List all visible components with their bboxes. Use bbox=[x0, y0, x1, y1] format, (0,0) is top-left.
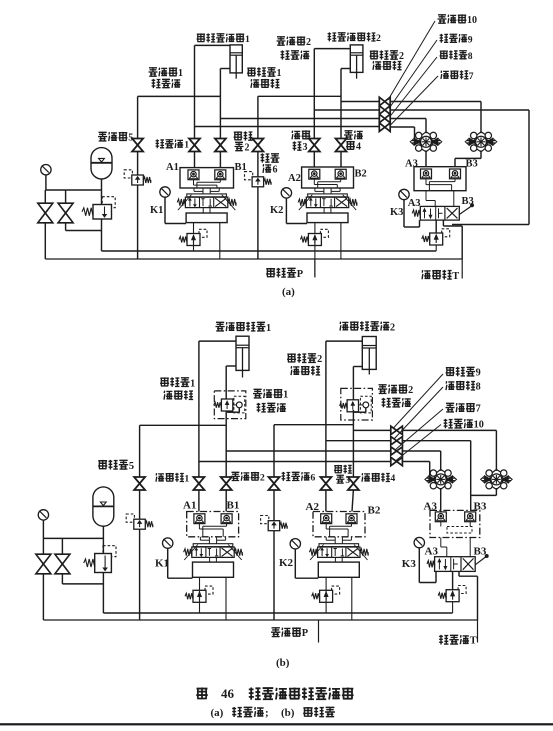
label cyl1 piston chamber left (b) bbox=[160, 377, 169, 386]
K3 spring valve (b) bbox=[458, 586, 466, 594]
wire K1 spring drain (b) bbox=[199, 590, 201, 613]
wire valve2 to check6 (b) bbox=[273, 490, 275, 521]
reducing valve box cyl1 (b) bbox=[214, 391, 246, 419]
drain line (b) bbox=[103, 612, 452, 614]
svg-text:K1: K1 bbox=[155, 558, 169, 570]
wire bypass cyl2 (b) bbox=[365, 408, 367, 412]
quick coupling 1 (b) bbox=[434, 469, 447, 489]
wire relief to drain (b) bbox=[102, 573, 104, 614]
label shutoff valve 9 (b) bbox=[446, 367, 455, 376]
wire bypass cyl1 (b) bbox=[238, 408, 240, 412]
wire to hand valves (a) bbox=[44, 190, 46, 203]
leader line valve8 (a) bbox=[390, 57, 438, 117]
svg-text:2: 2 bbox=[390, 323, 395, 334]
label shutoff valve 3 (b) bbox=[334, 465, 342, 473]
wire riser valve1 (b) bbox=[198, 341, 200, 477]
wire riser valve3 (b) bbox=[352, 367, 354, 400]
svg-text:B2: B2 bbox=[355, 169, 367, 180]
K3 lever (a) bbox=[459, 206, 471, 215]
label shutoff valve 4 (b) bbox=[362, 473, 370, 482]
wire riser valve2-cyl1-rod (a) bbox=[219, 69, 221, 139]
K2 directional valve group (b) bbox=[319, 544, 359, 547]
leader line valve8 (b) bbox=[394, 387, 443, 439]
svg-text:1: 1 bbox=[283, 390, 288, 401]
wire valve5 to check (a) bbox=[137, 152, 139, 176]
svg-text:A1: A1 bbox=[166, 162, 179, 173]
wire hand valve2 down (a) bbox=[65, 223, 67, 231]
label shutoff valve 5 (a) bbox=[98, 132, 107, 141]
wire coupling2 jog (b) bbox=[495, 488, 497, 495]
label cyl2 rod chamber (a) bbox=[370, 50, 379, 59]
manifold block K2 top (b) bbox=[313, 512, 365, 537]
wire hand valve1 to bus (b) bbox=[42, 574, 44, 620]
wire stack right to coupling1 (b) bbox=[402, 450, 441, 452]
svg-text:7: 7 bbox=[476, 404, 481, 415]
relief valve (a) bbox=[102, 197, 115, 208]
label cyl1 rod chamber (a) bbox=[247, 67, 256, 76]
wire bottom jog left assembly (a) bbox=[66, 230, 102, 232]
svg-text:2: 2 bbox=[408, 385, 413, 396]
K3 directional valve (b) bbox=[435, 557, 476, 572]
label shutoff valve 2 (a) bbox=[234, 131, 243, 140]
K3 spring valve (a) bbox=[442, 229, 450, 237]
shutoff valve 3 (b) bbox=[348, 477, 359, 484]
pressure gauge left (a) bbox=[41, 165, 51, 175]
wire K3 spring drain (a) bbox=[435, 245, 437, 251]
label shutoff valve 3 (a) bbox=[292, 131, 300, 140]
shutoff valve stack 7-10 (a) bbox=[378, 97, 380, 123]
wire gauge stem (a) bbox=[45, 175, 47, 190]
wire cyl1 top port jog (a) bbox=[195, 44, 231, 46]
check valve 6 (b) bbox=[261, 516, 269, 524]
wire riser valve6 (b) bbox=[325, 341, 327, 477]
wire riser valve3 (a) bbox=[313, 49, 315, 139]
svg-text:T: T bbox=[452, 271, 459, 282]
manifold block K1 top (b) bbox=[187, 512, 239, 537]
wire stack branch b4 (a) bbox=[195, 126, 380, 128]
reducing valve box cyl2 (b) bbox=[341, 388, 373, 420]
label shutoff valve 8 (a) bbox=[440, 50, 448, 59]
svg-text:T: T bbox=[470, 636, 477, 647]
svg-text:9: 9 bbox=[476, 368, 481, 379]
wire riser valve2 (b) bbox=[273, 425, 275, 478]
svg-text:A1: A1 bbox=[183, 500, 196, 512]
relief valve (b) bbox=[103, 546, 116, 557]
K1 directional valve group (b) bbox=[193, 544, 233, 547]
servo cylinder 2 (a) bbox=[350, 45, 363, 73]
svg-text:P: P bbox=[297, 269, 304, 280]
wire riser valve5 (a) bbox=[137, 96, 139, 138]
label shutoff valve 1 (a) bbox=[156, 139, 165, 148]
svg-text:8: 8 bbox=[476, 382, 481, 393]
wire cyl2 side port jog (a) bbox=[341, 68, 350, 70]
wire coupling1 to A3 (a) bbox=[425, 150, 427, 166]
wire gauge-accumulator link (b) bbox=[43, 537, 103, 539]
wire stack branch b3 (a) bbox=[220, 118, 379, 120]
svg-text:10: 10 bbox=[467, 15, 477, 26]
svg-text:2: 2 bbox=[260, 472, 265, 483]
wire cyl2 top port jog (a) bbox=[314, 48, 350, 50]
shutoff valve 6 (b) bbox=[320, 477, 331, 484]
hand valve left 1 (b) bbox=[36, 554, 51, 564]
label shutoff valve 8 (b) bbox=[446, 381, 455, 390]
hand valve left 2 (b) bbox=[55, 554, 70, 564]
wire stack right to coupling1 left port (b) bbox=[402, 461, 430, 463]
shutoff valve stack 7-10 (b) bbox=[391, 426, 397, 434]
wire K1 spring valve drain (a) bbox=[193, 240, 195, 251]
wire stack branch b1 (b) bbox=[353, 429, 391, 431]
svg-text:2: 2 bbox=[245, 143, 250, 154]
svg-text:K3: K3 bbox=[402, 558, 417, 570]
svg-text:B1: B1 bbox=[235, 162, 247, 173]
svg-text:B2: B2 bbox=[368, 505, 381, 517]
wire gauge-accumulator link (a) bbox=[46, 189, 102, 191]
port T tick (b) bbox=[477, 620, 479, 643]
shutoff valve 2 (a) bbox=[252, 139, 263, 146]
wire link valve2 riser to cyl2-rod riser (b) bbox=[274, 424, 353, 426]
wire valve4 to B2 (a) bbox=[340, 152, 342, 168]
gauge K3 (a) bbox=[399, 189, 409, 199]
leader line valve7 (b) bbox=[395, 409, 443, 450]
K1 directional valve group (a) bbox=[187, 194, 227, 197]
label port P (a) bbox=[266, 268, 275, 277]
label servo cylinder 2 (b) bbox=[340, 322, 349, 331]
pressure gauge left (b) bbox=[38, 510, 48, 520]
svg-text:4: 4 bbox=[390, 473, 395, 484]
wire K2 spring drain (b) bbox=[325, 590, 327, 613]
wire K3 to T riser (b) bbox=[458, 571, 460, 576]
leader line valve7 (a) bbox=[390, 76, 438, 126]
label shutoff valve 10 (b) bbox=[444, 419, 453, 428]
svg-text:K2: K2 bbox=[270, 205, 283, 216]
svg-text:1: 1 bbox=[266, 323, 271, 334]
leader line valve10 (b) bbox=[396, 425, 441, 461]
wire stack branch b1 (a) bbox=[341, 101, 379, 103]
svg-text:1: 1 bbox=[190, 378, 195, 389]
label shutoff valve 6 (b) bbox=[282, 472, 291, 481]
wire stack right to coupling2 (a) bbox=[390, 101, 481, 103]
wire K3 block to valve (b) bbox=[440, 538, 442, 548]
svg-text:K2: K2 bbox=[279, 557, 294, 569]
svg-text:46: 46 bbox=[221, 686, 235, 701]
label shutoff valve 6 (a) bbox=[261, 153, 270, 162]
wire valve5 to check (b) bbox=[139, 490, 141, 519]
shutoff valve 5 (a) bbox=[132, 139, 143, 146]
svg-text:B3: B3 bbox=[466, 159, 478, 170]
port P tick (b) bbox=[318, 620, 320, 643]
caption figure title bbox=[196, 688, 207, 700]
wire bottom jog left (b) bbox=[62, 583, 103, 585]
svg-text:6: 6 bbox=[310, 472, 315, 483]
wire stack right to coupling2 (b) bbox=[402, 429, 496, 431]
P bus (b) bbox=[43, 619, 477, 621]
wire K3 valve right to T riser (a) bbox=[442, 220, 444, 226]
label servo cylinder 1 (b) bbox=[216, 322, 225, 331]
shutoff valve cyl1-rod (b) bbox=[221, 477, 232, 484]
accumulator (b) bbox=[93, 487, 114, 526]
wire link valve5 to rod riser y96.4 (a) bbox=[138, 95, 221, 97]
shutoff valve 2 (b) bbox=[269, 477, 280, 484]
svg-text:A2: A2 bbox=[288, 173, 301, 184]
check valve 6 (a) bbox=[245, 172, 253, 180]
wire K3 spring drain (b) bbox=[452, 602, 454, 613]
wire riser shutoff2 line (a) bbox=[257, 96, 259, 139]
wire cyl1 side port jog (b) bbox=[226, 365, 236, 367]
wire K2 spring drain to P port (a) bbox=[314, 240, 316, 277]
accumulator (a) bbox=[91, 148, 112, 179]
svg-text:P: P bbox=[302, 628, 309, 639]
wire valve3 to B2 (b) bbox=[352, 490, 353, 512]
label servo cylinder 1 (a) bbox=[197, 33, 206, 42]
K3 lever (b) bbox=[475, 557, 486, 565]
wire hand valve2 down (b) bbox=[61, 574, 63, 584]
wire cyl2 side port jog (b) bbox=[353, 366, 362, 368]
label shutoff valve 1 (b) bbox=[156, 473, 164, 482]
wire relief to drain (a) bbox=[101, 219, 103, 251]
servo cylinder 1 (b) bbox=[236, 336, 249, 370]
wire valve(2) to B1 (b) bbox=[225, 490, 227, 512]
label shutoff valve 2 (b) bbox=[231, 472, 240, 480]
servo cylinder 1 (a) bbox=[230, 45, 242, 73]
svg-text:3: 3 bbox=[303, 142, 308, 153]
svg-text:K1: K1 bbox=[150, 205, 163, 216]
svg-text:B1: B1 bbox=[227, 500, 240, 512]
wire riser valve4 (a) bbox=[340, 69, 342, 139]
label shutoff valve 7 (a) bbox=[441, 71, 449, 79]
wire valve6 to A2 (b) bbox=[325, 490, 327, 512]
hand valve left 2 (a) bbox=[58, 203, 73, 213]
svg-text:2: 2 bbox=[376, 33, 381, 44]
svg-text:8: 8 bbox=[468, 51, 473, 62]
label shutoff valve 5 (b) bbox=[98, 460, 107, 469]
label cyl1 piston chamber right (b) bbox=[253, 389, 262, 398]
svg-text:A3: A3 bbox=[408, 198, 421, 209]
check valve line5 (b) bbox=[126, 514, 134, 522]
K3 directional valve (a) bbox=[420, 206, 459, 220]
svg-text:1: 1 bbox=[277, 68, 282, 79]
wire valve3 to A2 (a) bbox=[313, 152, 315, 168]
port T tick (a) bbox=[461, 259, 463, 279]
wire hand valve1 to bus (a) bbox=[44, 223, 46, 259]
svg-text:5: 5 bbox=[129, 461, 134, 472]
label servo cylinder 2 (a) bbox=[328, 32, 337, 41]
wire cyl1 top port jog (b) bbox=[199, 340, 236, 342]
wire K3 valve to spring valve (b) bbox=[452, 571, 454, 589]
wire stack branch b3 (b) bbox=[226, 450, 391, 452]
svg-text:1: 1 bbox=[184, 140, 189, 151]
K2 directional valve group (a) bbox=[308, 194, 348, 197]
wire K3 block to valve (a) bbox=[425, 191, 427, 201]
svg-text:10: 10 bbox=[474, 420, 484, 431]
manifold block K1 top (a) bbox=[180, 168, 234, 188]
label shutoff valve 7 (b) bbox=[446, 403, 455, 412]
svg-text:2: 2 bbox=[306, 37, 311, 48]
shutoff valve 3 (a) bbox=[309, 139, 320, 146]
drain line (a) bbox=[102, 250, 437, 252]
svg-text:(b): (b) bbox=[281, 707, 295, 719]
label cyl2 piston chamber right (b) bbox=[378, 385, 387, 394]
wire cyl1 side port jog (a) bbox=[220, 68, 230, 70]
bottom rule bbox=[0, 723, 553, 725]
wire valve2 to check6 (a) bbox=[257, 152, 259, 177]
label shutoff valve 4 (a) bbox=[344, 131, 353, 139]
shutoff valve 1 (a) bbox=[189, 139, 200, 146]
svg-text:6: 6 bbox=[273, 165, 278, 176]
svg-text:;: ; bbox=[265, 707, 269, 719]
svg-text:9: 9 bbox=[468, 34, 473, 45]
leader line valve10 (a) bbox=[388, 21, 435, 100]
wire check6 to P bus (a) bbox=[257, 187, 259, 259]
svg-text:1: 1 bbox=[178, 68, 183, 79]
wire valve1 to A1 (a) bbox=[194, 152, 196, 168]
servo cylinder 2 (b) bbox=[362, 337, 376, 370]
svg-text:(a): (a) bbox=[282, 286, 295, 298]
leader line valve9 (a) bbox=[389, 40, 437, 109]
shutoff valve 4 (a) bbox=[336, 139, 347, 146]
P bus (a) bbox=[45, 258, 462, 260]
label port T (a) bbox=[422, 270, 431, 279]
wire stack right to coupling1 (a) bbox=[390, 118, 426, 120]
wire stack right to T column (a) bbox=[390, 109, 529, 111]
svg-text:1: 1 bbox=[184, 473, 189, 484]
hand valve left 1 (a) bbox=[38, 203, 53, 213]
shutoff valve 5 (b) bbox=[134, 477, 145, 484]
quick coupling 1 (a) bbox=[420, 132, 433, 152]
wire accumulator stem (b) bbox=[102, 526, 104, 553]
svg-text:7: 7 bbox=[469, 71, 474, 82]
gauge K3 (b) bbox=[414, 537, 424, 547]
wire valve(2) to B1 (a) bbox=[219, 152, 221, 168]
shutoff valve 1 (b) bbox=[193, 477, 204, 484]
manifold block K3 top (b) bbox=[430, 510, 480, 537]
check valve on line5 (a) bbox=[124, 170, 132, 178]
svg-text:4: 4 bbox=[356, 142, 361, 153]
wire coupling2 to B3 (a) bbox=[480, 150, 482, 158]
wire riser valve5 top (b) bbox=[139, 425, 141, 477]
label cyl2 piston chamber (a) bbox=[277, 37, 286, 45]
svg-text:2: 2 bbox=[399, 51, 404, 62]
wire stack branch b2 (b) bbox=[326, 440, 391, 442]
wire check6 to bus (b) bbox=[273, 531, 275, 620]
wire riser cyl1 rod (b) bbox=[225, 366, 227, 399]
wire rod-chamber cross link y96 (a) bbox=[258, 95, 341, 97]
svg-text:(b): (b) bbox=[276, 657, 290, 669]
shutoff valve on cyl1 rod line (a) bbox=[215, 139, 226, 146]
label port T (b) bbox=[439, 635, 448, 645]
manifold block K3 top (a) bbox=[414, 167, 466, 191]
wire gauge stem (b) bbox=[42, 520, 44, 538]
wire coupling1 to A3 (b) bbox=[440, 488, 442, 512]
svg-text:1: 1 bbox=[245, 34, 250, 45]
wire valve1 to A1 (b) bbox=[198, 490, 200, 512]
wire cyl2 top port jog (b) bbox=[326, 340, 362, 342]
leader line valve9 (b) bbox=[393, 374, 443, 429]
label cyl1 piston chamber (a) bbox=[149, 68, 158, 76]
wire link valve5 to cyl1-rod riser (b) bbox=[140, 424, 227, 426]
wire stack branch b4 (b) bbox=[199, 461, 391, 463]
wire accumulator stem (a) bbox=[101, 179, 103, 205]
svg-text:K3: K3 bbox=[390, 207, 403, 218]
svg-text:(a): (a) bbox=[211, 707, 224, 719]
label cyl2 piston chamber left (b) bbox=[287, 353, 296, 362]
quick coupling 2 (b) bbox=[490, 469, 503, 489]
svg-text:A3: A3 bbox=[425, 546, 439, 558]
wire riser valve1 (a) bbox=[194, 45, 196, 138]
wire stack branch b2 (a) bbox=[314, 109, 379, 111]
manifold block K2 top (a) bbox=[302, 167, 354, 188]
wire stack right to coupling1 left port (a) bbox=[390, 126, 414, 128]
wire stack right to B3 (b) bbox=[402, 440, 471, 442]
quick coupling 2 (a) bbox=[475, 132, 488, 152]
svg-text:2: 2 bbox=[317, 354, 322, 365]
wire check5 to bus (b) bbox=[139, 529, 141, 620]
label shutoff valve 10 (a) bbox=[438, 15, 447, 23]
wire check5 to P bus (a) bbox=[137, 185, 139, 259]
port P tick (a) bbox=[314, 259, 316, 277]
label shutoff valve 9 (a) bbox=[440, 34, 449, 43]
svg-text:A3: A3 bbox=[405, 159, 418, 170]
wire K3 valve to spring valve (a) bbox=[435, 220, 437, 233]
label port P (b) bbox=[271, 628, 280, 637]
